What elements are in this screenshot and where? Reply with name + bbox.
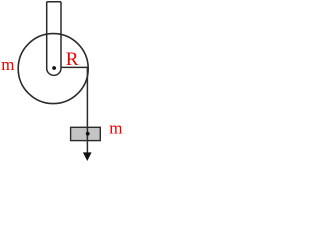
axle center dot [52, 66, 56, 70]
svg-text:R: R [66, 49, 79, 70]
block center dot [86, 132, 90, 136]
radius line R [61, 66, 88, 68]
bracket rod (rounded-bottom slot) [47, 2, 61, 76]
svg-text:m: m [109, 118, 122, 137]
rope from pulley rim to block and through it [86, 67, 88, 153]
pulley wheel circle [18, 34, 88, 104]
weight force arrowhead [83, 152, 92, 161]
hanging mass block [71, 127, 101, 140]
svg-text:m: m [1, 55, 14, 74]
